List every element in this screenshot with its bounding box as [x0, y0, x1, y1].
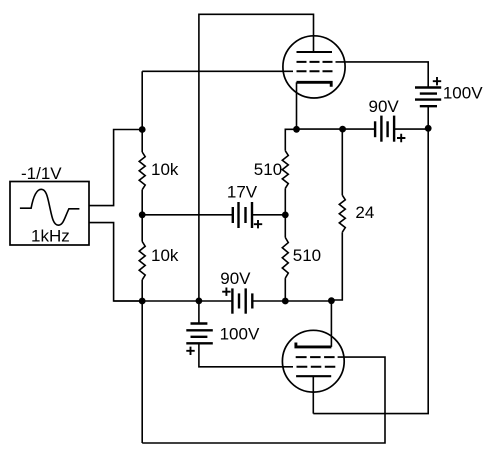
wire B1 negative down right side — [313, 106, 428, 413]
svg-text:10k: 10k — [151, 246, 179, 265]
tube V2 cathode — [296, 343, 332, 347]
svg-text:100V: 100V — [220, 324, 260, 343]
tube V2 grid row 2 — [297, 366, 336, 368]
wire source lower terminal to node C — [89, 223, 142, 301]
wire R1 to node B — [141, 190, 143, 242]
tube V1 grid row 2 — [297, 70, 333, 72]
junction right rail node — [425, 125, 432, 132]
junction node D — [282, 212, 289, 219]
tube V2 envelope — [282, 330, 344, 392]
wire R3 to node D — [284, 188, 286, 237]
svg-text:17V: 17V — [227, 183, 258, 202]
wire top loop plate V1 — [199, 14, 314, 301]
svg-text:10k: 10k — [151, 160, 179, 179]
plus sign B4 — [222, 288, 230, 296]
wire bottom rail left — [114, 300, 233, 302]
svg-text:510: 510 — [293, 246, 321, 265]
junction V1 cathode node — [293, 126, 300, 133]
tube V1 plate — [297, 51, 333, 53]
battery B1 100V — [415, 88, 441, 107]
tube V1 grid row 1 — [297, 61, 333, 63]
junction node A — [139, 126, 146, 133]
battery B2 90V — [375, 116, 394, 142]
wire R5 bottom jog — [331, 232, 342, 300]
plus sign B3 — [254, 220, 262, 228]
wire R2 to node C — [141, 280, 143, 301]
wire source upper terminal to node A — [89, 130, 142, 206]
resistor R3 510 — [282, 151, 288, 189]
resistor R2 10k — [139, 242, 145, 280]
wire 24 resistor top — [341, 129, 343, 195]
wire jog to R3 — [285, 129, 296, 151]
wire B3 to node D — [252, 214, 285, 216]
junction node E — [196, 298, 203, 305]
tube V2 grid row 1 — [296, 356, 335, 358]
wire B5 to V2 grid — [199, 343, 293, 367]
junction V2 cathode node — [328, 297, 335, 304]
junction 24 top node — [339, 126, 346, 133]
svg-text:90V: 90V — [220, 269, 251, 288]
svg-text:100V: 100V — [443, 84, 483, 103]
junction node B — [139, 211, 146, 218]
wire bottom rail right — [252, 300, 331, 302]
resistor R5 24 — [339, 195, 345, 232]
battery B5 100V — [186, 324, 213, 344]
wire node E to battery B5 — [198, 301, 200, 324]
tube V1 envelope — [283, 36, 345, 98]
wire V1 grid2 to battery B1 — [336, 62, 429, 88]
wire grid of V1 — [142, 70, 293, 72]
wire V2 grid feedback loop — [142, 357, 385, 443]
tube V2 plate — [296, 375, 331, 377]
svg-text:90V: 90V — [369, 97, 400, 116]
wire R4 to bottom rail — [284, 278, 286, 301]
svg-text:510: 510 — [254, 160, 282, 179]
wire mid rail left — [297, 128, 376, 130]
wire V2 cathode lead — [330, 301, 332, 347]
tube V1 cathode — [297, 82, 332, 87]
wire node C down to bottom rail — [141, 301, 143, 443]
plus sign B2 — [397, 134, 405, 142]
battery B3 17V — [233, 202, 252, 228]
svg-text:24: 24 — [355, 203, 374, 222]
wire node B to battery B3 — [142, 214, 233, 216]
plus sign B1 — [433, 77, 441, 85]
junction node C — [139, 298, 146, 305]
wire B2 to right node — [394, 128, 428, 130]
wire V2 plate lead — [312, 376, 314, 413]
svg-text:1kHz: 1kHz — [31, 227, 70, 246]
wire V1 cathode lead — [296, 82, 298, 129]
svg-text:-1/1V: -1/1V — [21, 164, 62, 183]
sine wave symbol — [20, 189, 80, 225]
resistor R1 10k — [139, 152, 145, 190]
voltage source VS1 box — [10, 182, 89, 246]
plus sign B5 — [186, 347, 194, 355]
junction R4 bottom node — [282, 298, 289, 305]
wire node A vertical — [141, 71, 143, 152]
resistor R4 510 — [282, 238, 288, 279]
battery B4 90V — [232, 288, 252, 313]
